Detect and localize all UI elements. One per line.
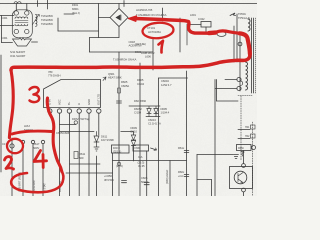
pin circle B1 [237,77,241,81]
bridge diode symbol [116,15,121,20]
wire y106 diodes top [129,105,160,107]
wire pin6 down [98,113,100,135]
wire pin5 down [88,113,90,196]
svg-text:C605/C606: C605/C606 [56,131,70,135]
wire thermistor right lead [32,41,38,43]
IC pin 5 [87,109,91,113]
wire horizontal y31 [58,30,99,32]
wire x43 bottom [42,144,44,196]
header pin H01 [251,125,256,129]
varistor coil with arrow [36,15,38,27]
wire to H02 [238,138,250,140]
red digit 3 [30,87,40,102]
red hump over fuse to corner [217,31,240,33]
wire bridge left lead [99,17,111,19]
transistor Q602 [234,171,247,184]
wire x133 down [133,146,135,162]
arrow glyph at block corner [103,77,106,81]
dashed vertical x252 [252,122,254,196]
wire y154 [197,154,233,156]
svg-text:0.001: 0.001 [1,16,8,20]
wire vertical x89 [89,38,91,53]
wire drop x98 [98,4,100,38]
IC pin 3 [67,109,71,113]
wire vertical x187 [186,24,188,45]
svg-text:10V STABI: 10V STABI [101,138,114,142]
svg-text:T.USHIROH ON-KA: T.USHIROH ON-KA [113,58,136,62]
red digit 4 [34,151,47,168]
ground symbol [234,155,239,159]
wire y79 left [225,79,237,81]
wire to stacked diodes [121,132,134,136]
svg-text:500uF: 500uF [141,180,149,184]
svg-text:TPS/LA-N: TPS/LA-N [238,16,250,20]
svg-text:ACT0105A: ACT0105A [148,30,161,34]
wire top bus [0,3,257,5]
svg-text:776 DASH: 776 DASH [48,74,60,78]
IC pin 1 [48,109,52,113]
svg-text:TM E05W: TM E05W [41,22,53,26]
svg-text:H02: H02 [245,135,250,138]
line filter L901 body [12,10,32,38]
svg-text:O/11 SHORT: O/11 SHORT [10,54,26,58]
dashed vertical x241 [240,96,242,160]
svg-text:OUT LTD: OUT LTD [97,94,101,105]
diode D607 [147,107,151,117]
svg-text:VCC: VCC [57,99,61,105]
svg-text:H01: H01 [245,126,250,129]
box F666 [133,145,149,151]
red arrow at bridge [129,16,137,21]
line filter pin circle top-left [14,11,18,15]
diode D608 [154,107,158,117]
main vertical bus x140 [139,63,141,196]
wire y131 [60,131,95,133]
svg-text:C605A: C605A [121,84,129,88]
line filter pin circle top-right [25,11,29,15]
red bracket bottom [238,54,250,60]
svg-text:D60 3/560: D60 3/560 [134,99,147,103]
capacitor marks on x186 lower [184,175,189,177]
red long return line [11,60,238,70]
svg-text:R66C: R66C [238,147,244,150]
connector pin J1 [10,144,14,148]
wire y117 diodes bottom [146,116,160,118]
transformer winding scallops lower [246,62,248,90]
wire x170 bottom [169,161,171,197]
wire vertical x215 [214,80,216,197]
red digit 2 [5,157,14,169]
thermistor symbol on pin3 wire [74,121,77,124]
svg-text:500: 500 [79,156,84,160]
wire horizontal y52 [90,51,154,53]
resistor tick on x119 [118,88,121,93]
wire to H01 [238,129,250,131]
wire x237 top [236,14,238,62]
svg-text:DRS/1 5W Tap: DRS/1 5W Tap [72,117,90,121]
svg-text:1/2W 4.7: 1/2W 4.7 [161,83,172,87]
wire pin4 down [78,113,80,196]
red small circle node 2 [7,139,23,153]
wire x211 bottom [211,180,213,197]
wire x216 vertical [216,80,218,102]
connector pin J2 [21,140,24,143]
line filter pin circle bottom-left [14,29,18,33]
wire box to left [188,24,201,26]
diode D609 [131,135,135,140]
wire x146 bottom [146,151,148,196]
red top highlight line [135,19,210,34]
svg-text:3P4 50V: 3P4 50V [104,178,114,182]
wire pin2 down [59,113,61,196]
wire filter to top bus left [15,4,17,11]
svg-text:F666: F666 [135,146,142,150]
IC pin 6 [97,109,101,113]
wire left edge lower [0,55,2,172]
wire bridge bottom drop [118,27,120,38]
dashed feedback line [238,95,252,97]
svg-text:C/A: C/A [138,155,143,159]
wire filter to top bus right [26,4,28,11]
svg-text:A: A [77,103,81,105]
wire x180 mid [179,18,181,52]
pin circle B2 [237,86,241,90]
red annotations [5,16,250,192]
capacitor C656 [122,181,127,183]
wire thermistor left lead [2,42,13,44]
svg-text:L606: L606 [145,55,151,59]
box D/R.0 [112,145,130,153]
svg-text:500V: 500V [33,146,39,150]
dotted edge line [255,18,257,93]
svg-text:ACENATW: ACENATW [129,44,143,48]
header pin H02 [251,134,256,138]
red bottom oval [11,172,63,193]
wire left lead lower [0,25,14,27]
svg-text:C/104: C/104 [134,111,142,115]
relay box R66C [237,145,252,151]
capacitor C605 [144,183,149,185]
TP601 arrow glyph [230,13,236,16]
IC701 hybrid block [44,80,101,108]
node tick x124 [123,1,125,7]
svg-text:0.022: 0.022 [198,17,205,21]
transistor pin top [242,164,246,168]
junction circle [238,42,242,46]
svg-text:AC250VA 705: AC250VA 705 [136,8,153,12]
svg-text:1/104.4: 1/104.4 [161,111,170,115]
coil loop between pins [241,81,243,85]
transformer T601 primary wire [233,26,235,62]
line filter pin circle bottom-right [25,29,29,33]
transistor Q602 box [230,167,253,189]
svg-text:31.35: 31.35 [138,164,145,168]
svg-text:L601: L601 [190,13,196,17]
capacitor marks on x186 upper [184,151,189,153]
red second vertical [47,98,62,172]
IC pin 2 [57,109,61,113]
transformer core line 3 [253,18,255,93]
red digit 1 [159,41,164,53]
node tick x37 [37,1,39,7]
connector pin J4 [41,140,44,143]
transformer winding scallops upper [248,19,250,31]
svg-text:+C/x: +C/x [178,174,184,178]
snubber box top [159,77,188,79]
svg-text:(Not J): (Not J) [72,11,80,15]
wire y173 [66,172,113,174]
wire x162 top [162,8,164,21]
wire drop to bridge [118,4,120,9]
svg-text:0.001: 0.001 [1,36,8,40]
wire x23 bottom [22,144,24,196]
IC pin 4 [77,109,81,113]
svg-text:(21.6): (21.6) [116,164,123,168]
wire y179 [197,179,212,181]
svg-text:C/104: C/104 [137,82,145,86]
wire y124 [60,124,76,126]
zener D611 [94,132,99,143]
wire x12 bottom [11,138,13,196]
line filter winding lower [15,24,28,26]
ground below zener [94,142,99,151]
wire to transistor top [243,151,245,164]
thermistor body below filter [13,38,32,47]
wire x240 with junction circle [239,36,241,91]
svg-text:HEAT SINK: HEAT SINK [108,76,122,80]
wire y160 [113,160,187,162]
wire x33 bottom [32,144,34,196]
diode D610 [131,141,135,146]
wire y164 [70,163,100,165]
svg-text:GND: GND [87,99,91,105]
wire x153 below oval [152,39,154,71]
tiny text labels [1,3,250,184]
fuse F601 on top bus [14,2,21,4]
wire left edge vertical [1,16,3,43]
wire left lead upper [0,15,14,17]
red thick wedge before fuse [209,30,216,35]
oval fuse component under red path [217,32,226,37]
small box L601/C613 [201,22,211,28]
red left vertical [9,70,13,138]
svg-text:(R60) xx0uF: (R60) xx0uF [165,169,169,184]
wire box drop [205,27,207,33]
wire transistor bottom [243,192,245,196]
bridge rectifier D601 diamond [110,9,128,27]
wire horizontal y37 [90,37,120,39]
connector pin J3 [31,140,34,143]
capacitor tick on x119 [117,101,122,103]
wire vertical x119 mid [118,52,120,196]
svg-text:R61x: R61x [178,146,185,150]
wire box x58 [57,18,59,31]
arrow mark [151,148,157,150]
wire y88 left [215,88,237,90]
svg-text:(321.1): (321.1) [113,150,121,154]
wire x112 bottom [112,153,114,196]
svg-text:L60B 08-02: L60B 08-02 [141,51,155,55]
line filter winding upper [15,17,28,19]
svg-text:C1 1H1.7A: C1 1H1.7A [148,122,161,126]
red oval around CT101 [142,22,174,40]
red branch horizontal [12,131,52,134]
wire x96 bottom [96,156,98,196]
red right bracket vertical [240,33,250,54]
short link under F601 [64,13,74,15]
resistor R611 [74,152,78,159]
node tick x47 [47,0,49,9]
wire pin3 down [68,113,70,196]
photocoupler note glyph [241,151,244,156]
svg-text:B+: B+ [67,101,71,105]
transformer core line 2 [251,18,253,93]
wire y101 horizontal [217,100,239,102]
svg-text:R313 180: R313 180 [32,180,36,192]
transistor pin bottom [242,188,246,192]
wire x197 bottom [196,155,198,197]
circle right of box [252,146,256,150]
svg-text:D610: D610 [131,130,138,134]
wire vertical x158 [158,78,160,196]
